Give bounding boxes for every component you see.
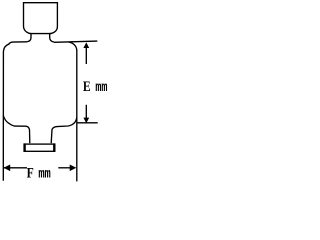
- F dimension left arrowhead: [4, 165, 11, 172]
- svg-text:F: F: [27, 164, 34, 181]
- label E mm: [83, 77, 107, 95]
- svg-text:mm: mm: [38, 166, 50, 182]
- F dimension right arrowhead: [70, 165, 77, 172]
- collar right side: [50, 34, 54, 43]
- E dimension upper shaft: [85, 47, 87, 65]
- foot plate thick left end: [23, 143, 25, 152]
- foot plate: [24, 144, 54, 151]
- svg-text:mm: mm: [95, 79, 107, 95]
- collar left side: [27, 34, 31, 42]
- foot plate thick right end: [53, 143, 55, 152]
- cap outline: [24, 3, 58, 34]
- right heel curve and ledge: [51, 118, 77, 144]
- F dimension line left segment: [4, 167, 28, 169]
- svg-text:E: E: [83, 77, 91, 94]
- E bottom extension line: [77, 122, 98, 124]
- left shoulder and body left side + F extension line: [3, 42, 27, 181]
- E dimension up arrowhead: [83, 42, 89, 48]
- label F mm: [27, 164, 51, 182]
- F dimension line right segment: [58, 167, 70, 169]
- diagram: dropper bottle with cap, dimensions E mm and F mm: [0, 0, 109, 183]
- right shoulder + E top extension line: [54, 41, 97, 42]
- body right side + F extension line: [69, 42, 77, 181]
- left heel curve and ledge: [3, 116, 30, 144]
- E dimension lower shaft: [85, 105, 87, 119]
- E dimension down arrowhead: [83, 118, 89, 124]
